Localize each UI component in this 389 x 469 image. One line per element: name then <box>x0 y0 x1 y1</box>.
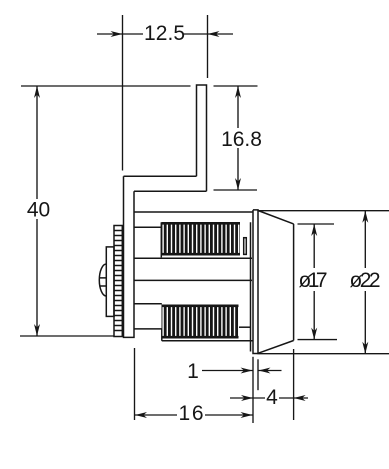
arrow dia22 bottom (points down) <box>362 342 368 354</box>
cam bracket jog upper surface <box>124 175 197 177</box>
head cone top slant <box>258 211 294 224</box>
arrow 12.5 left (points right) <box>111 31 123 37</box>
svg-text:4: 4 <box>266 386 278 409</box>
arrow 4 left (points right) <box>241 395 253 401</box>
ext line 40 bottom <box>20 335 114 337</box>
dim line dia17 <box>313 224 315 340</box>
dim line 1 <box>202 370 282 372</box>
arrow dia17 top (points up) <box>311 224 317 236</box>
head flange front <box>253 210 258 354</box>
arrow 16.8 top (points up) <box>235 86 241 98</box>
ext line front face (1/4/16 shared) <box>252 357 254 423</box>
ext line 12.5 left <box>122 15 124 171</box>
toothed strip rungs <box>114 231 122 331</box>
spring clip upper <box>162 222 241 256</box>
arrow dia22 top (points up) <box>362 211 368 223</box>
cam bracket lower strip <box>124 176 135 337</box>
body top edge <box>134 211 253 213</box>
arrow dia17 bottom (points down) <box>311 328 317 340</box>
svg-text:40: 40 <box>27 199 50 222</box>
ext line dia22 bottom <box>258 353 389 355</box>
body step vertical (top) <box>160 222 162 257</box>
ext line 12.5 right <box>207 15 209 78</box>
dim line 4 <box>230 397 308 399</box>
body rear bottom step <box>134 328 162 330</box>
svg-text:12.5: 12.5 <box>144 22 185 45</box>
arrow 16 right (points right) <box>241 412 253 418</box>
body mid line 2 <box>134 303 162 305</box>
ext line 16 left <box>134 348 136 420</box>
svg-text:16.8: 16.8 <box>221 128 262 151</box>
rear washer plate <box>106 247 114 317</box>
spring clip lower <box>162 305 239 339</box>
arrow 16 left (points left) <box>135 412 147 418</box>
cam bracket upper tab <box>197 85 207 191</box>
head cone bottom slant <box>258 341 294 354</box>
arrow 40 bottom (points down) <box>34 324 40 336</box>
dim line 16.8 <box>237 86 239 190</box>
arrow 4 right (points left) <box>294 395 306 401</box>
key arc ticks <box>99 278 106 286</box>
body step vertical (bottom) <box>161 329 163 341</box>
ext line dia17 top <box>298 223 335 225</box>
ext line 4 right <box>293 349 295 420</box>
body rear top step <box>134 226 161 228</box>
ext line dia22 top <box>259 210 389 212</box>
arrow 1 right (points left) <box>259 368 271 374</box>
dim line dia22 <box>364 211 366 354</box>
arrow 12.5 right (points left) <box>208 31 220 37</box>
body mid line 1 <box>134 257 252 259</box>
svg-text:ø17: ø17 <box>299 269 328 292</box>
thin bar top right <box>244 238 247 255</box>
svg-text:ø22: ø22 <box>350 269 381 292</box>
arrow 16.8 bottom (points down) <box>235 178 241 190</box>
arrow 1 left (points right) <box>241 368 253 374</box>
body axis line <box>134 279 252 281</box>
head cone right edge <box>293 224 295 341</box>
ext line 40 top <box>21 85 191 87</box>
svg-text:1: 1 <box>187 360 199 383</box>
key/cylinder end arc <box>99 264 106 296</box>
dim line 16 <box>135 414 253 416</box>
ext line 1 right <box>257 359 259 390</box>
ext line dia17 bottom <box>298 339 338 341</box>
cam bracket jog lower surface <box>134 190 207 192</box>
svg-text:16: 16 <box>179 402 204 425</box>
ext line 16.8 bottom <box>214 189 258 191</box>
dim line 12.5 <box>97 33 233 35</box>
arrow 40 top (points up) <box>34 86 40 98</box>
ext line 16.8 top <box>214 85 258 87</box>
body bottom edge <box>162 340 253 342</box>
neck step line bottom right <box>239 326 251 328</box>
retaining ring behind flange <box>250 222 252 351</box>
dim line 40 <box>36 86 38 336</box>
toothed strip (serrated washer) <box>114 226 122 337</box>
